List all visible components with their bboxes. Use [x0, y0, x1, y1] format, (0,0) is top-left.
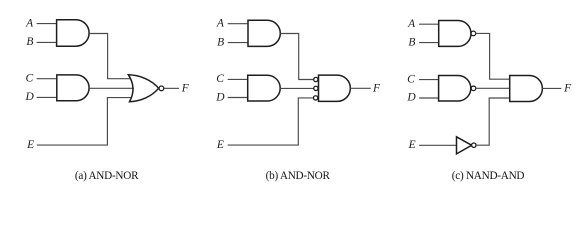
inverter G9 output bubble: [472, 143, 476, 147]
NOR gate G3 output bubble: [159, 86, 164, 91]
inverter G9 triangle: [457, 137, 472, 154]
svg-text:A: A: [216, 18, 225, 30]
svg-text:F: F: [563, 83, 572, 95]
wire G1 output to NOR gate G3 top input: [89, 34, 131, 79]
wire G6 output to F: [350, 87, 370, 89]
svg-text:D: D: [215, 91, 225, 103]
G6 bottom input bubble: [313, 96, 317, 100]
svg-text:E: E: [216, 139, 224, 151]
AND-with-inverted-inputs gate G6 body: [319, 75, 351, 101]
svg-text:D: D: [406, 92, 416, 104]
wire G8 output to AND gate G10 middle input: [476, 87, 510, 89]
AND gate G10 body: [510, 76, 543, 102]
wire D to AND gate G5: [228, 97, 248, 99]
AND gate G1 (inputs A,B): [57, 20, 90, 47]
svg-text:E: E: [26, 139, 34, 151]
wire D to AND gate G2: [37, 96, 57, 98]
svg-text:B: B: [408, 36, 415, 48]
NAND gate G7 output bubble: [471, 31, 476, 36]
svg-text:(c) NAND-AND: (c) NAND-AND: [452, 170, 525, 182]
wire C to AND gate G2: [37, 78, 57, 80]
wire G4 output to G6 top input bubble: [280, 34, 313, 80]
wire C to NAND gate G8: [419, 79, 439, 81]
svg-text:B: B: [26, 36, 33, 48]
wire G7 output to AND gate G10 top input: [476, 33, 510, 79]
wire G5 output to G6 middle input bubble: [280, 87, 314, 89]
svg-text:A: A: [25, 17, 34, 29]
wire E to G6 bottom input bubble: [228, 98, 314, 145]
wire E to inverter G9: [419, 144, 456, 146]
wire B to NAND gate G7: [419, 42, 439, 44]
wire G3 output to F: [164, 87, 179, 89]
svg-text:F: F: [181, 82, 190, 94]
wire A to NAND gate G7: [419, 23, 439, 25]
svg-text:(a) AND-NOR: (a) AND-NOR: [75, 170, 139, 182]
AND gate G4 (inputs A,B): [248, 20, 280, 46]
NAND gate G8 body (inputs C,D): [439, 76, 471, 102]
wire B to AND gate G1: [37, 41, 57, 43]
svg-text:F: F: [372, 82, 381, 94]
wire E to NOR gate G3 bottom input: [37, 98, 132, 146]
NAND gate G7 body (inputs A,B): [439, 21, 471, 47]
wire A to AND gate G1: [37, 23, 57, 25]
svg-text:E: E: [408, 139, 416, 151]
svg-text:C: C: [216, 73, 224, 85]
G6 top input bubble: [314, 77, 318, 81]
wire B to AND gate G4: [228, 42, 248, 44]
svg-text:D: D: [24, 91, 34, 103]
svg-text:C: C: [407, 73, 415, 85]
svg-text:(b) AND-NOR: (b) AND-NOR: [266, 170, 331, 182]
G6 middle input bubble: [314, 86, 318, 90]
svg-text:C: C: [25, 73, 33, 85]
wire D to NAND gate G8: [419, 97, 439, 99]
NAND gate G8 output bubble: [471, 86, 476, 91]
wire G9 output to AND gate G10 bottom input: [476, 98, 510, 145]
wire G2 output to NOR gate G3 middle input: [89, 87, 134, 89]
svg-text:B: B: [217, 36, 224, 48]
AND gate G5 (inputs C,D): [248, 75, 280, 101]
AND gate G2 (inputs C,D): [57, 75, 89, 101]
wire G10 output to F: [542, 87, 561, 89]
wire C to AND gate G5: [228, 78, 248, 80]
svg-text:A: A: [407, 18, 416, 30]
wire A to AND gate G4: [228, 23, 248, 25]
NOR gate G3 body: [128, 75, 158, 102]
